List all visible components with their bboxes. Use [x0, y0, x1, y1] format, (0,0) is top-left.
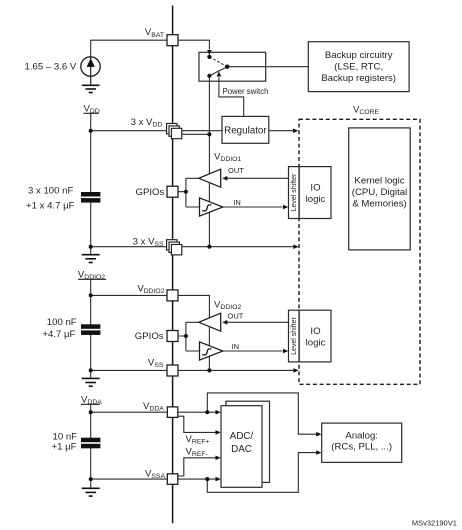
svg-text:GPIOs: GPIOs: [136, 187, 165, 198]
svg-text:logic: logic: [306, 194, 326, 205]
svg-text:IO: IO: [310, 183, 320, 194]
svg-text:Analog:: Analog:: [345, 431, 378, 442]
svg-text:IN: IN: [232, 342, 240, 351]
svg-text:+1 x 4.7 µF: +1 x 4.7 µF: [26, 200, 75, 211]
svg-text:100 nF: 100 nF: [47, 317, 77, 328]
svg-text:IN: IN: [233, 198, 241, 207]
svg-text:Level shifter: Level shifter: [291, 173, 298, 211]
svg-text:logic: logic: [306, 337, 326, 348]
svg-text:Power switch: Power switch: [223, 87, 269, 96]
svg-text:Kernel logic: Kernel logic: [354, 176, 404, 187]
svg-text:Backup circuitry: Backup circuitry: [325, 50, 393, 61]
svg-text:Level shifter: Level shifter: [291, 316, 298, 354]
svg-text:(LSE, RTC,: (LSE, RTC,: [334, 62, 383, 73]
svg-text:1.65 – 3.6 V: 1.65 – 3.6 V: [25, 62, 77, 73]
svg-text:+1 µF: +1 µF: [52, 442, 77, 453]
svg-text:ADC/: ADC/: [230, 431, 254, 442]
svg-text:OUT: OUT: [228, 311, 244, 320]
svg-text:(CPU, Digital: (CPU, Digital: [352, 187, 407, 198]
svg-text:(RCs, PLL, ...): (RCs, PLL, ...): [331, 442, 392, 453]
svg-text:3 x 100 nF: 3 x 100 nF: [28, 185, 73, 196]
svg-text:GPIOs: GPIOs: [135, 331, 164, 342]
svg-text:Regulator: Regulator: [224, 125, 267, 136]
svg-text:OUT: OUT: [228, 166, 244, 175]
svg-text:Backup registers): Backup registers): [321, 73, 396, 84]
svg-text:MSv32190V1: MSv32190V1: [412, 519, 457, 528]
svg-text:+4.7 µF: +4.7 µF: [42, 329, 75, 340]
svg-text:IO: IO: [310, 326, 320, 337]
svg-text:DAC: DAC: [231, 444, 252, 455]
svg-text:& Memories): & Memories): [352, 199, 406, 210]
